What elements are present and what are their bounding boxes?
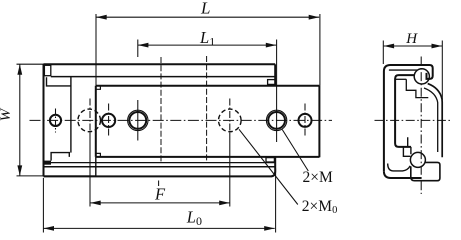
side view outer member outer contour (web + top arm) <box>384 65 433 171</box>
small hole left <box>102 114 115 127</box>
svg-text:2×M: 2×M <box>303 169 333 186</box>
leader 2xM <box>282 130 308 171</box>
side view ball top <box>414 69 429 84</box>
dimension L right extension <box>319 14 321 86</box>
dimension L1 right extension <box>276 40 278 143</box>
side view inner member right web arc <box>428 84 443 158</box>
leader 2xM0 <box>239 129 298 204</box>
centerline horizontal main axis <box>30 119 333 121</box>
svg-text:H: H <box>405 31 418 47</box>
bottom-left lip filled <box>44 161 51 165</box>
outer rail right end upper segment <box>274 64 276 86</box>
dimension L0 left extension <box>42 178 44 233</box>
counterbore hole left outer <box>128 110 148 130</box>
hole M0 left centerline extension <box>89 99 91 134</box>
outer rail top flange inner line <box>51 76 275 78</box>
small hole right centerline <box>304 104 306 138</box>
hidden middle rail end right dashed <box>206 56 208 163</box>
inner rail top-left notch <box>96 86 101 89</box>
outer rail right end lower segment <box>274 157 276 172</box>
side view vertical centerline <box>420 57 422 195</box>
right-end top notch <box>268 80 276 85</box>
inner rail bottom-left notch <box>96 153 101 156</box>
side view outer bottom corner <box>384 171 421 178</box>
retainer left vertical <box>70 77 72 153</box>
dimension H line <box>384 45 442 47</box>
dimension L1 left extension <box>137 40 139 58</box>
side view inner member left wall and top hook <box>395 75 414 147</box>
outer rail bottom edge <box>44 171 276 176</box>
bottom-left step <box>51 153 69 161</box>
svg-text:L: L <box>200 0 210 18</box>
counterbore hole right outer <box>266 110 286 130</box>
dimension L0 right extension <box>275 169 277 233</box>
small hole right <box>299 114 312 127</box>
svg-text:W: W <box>0 107 14 121</box>
dimension L0 line <box>44 227 275 229</box>
cap hole centerline <box>55 109 57 133</box>
hidden middle rail end left dashed <box>160 57 162 163</box>
side view: H extension left <box>382 41 384 65</box>
inner rail bottom edge <box>96 156 320 158</box>
side view staircase under top ball <box>406 79 428 97</box>
inner rail right edge <box>318 86 320 158</box>
svg-text:F: F <box>154 184 166 203</box>
side view inner member web inner line <box>424 88 438 152</box>
dimension W bottom extension <box>17 175 97 177</box>
outer rail bottom line 2 <box>44 166 276 168</box>
counterbore hole left inner <box>129 112 146 129</box>
hole M0 left dashed circle <box>78 109 101 132</box>
svg-text:2×M0: 2×M0 <box>302 198 338 216</box>
dimension L line <box>96 16 319 18</box>
dimension W line <box>19 64 21 176</box>
svg-text:L1: L1 <box>199 28 215 49</box>
counterbore hole right inner <box>268 112 285 129</box>
side view ball bottom <box>410 152 425 167</box>
dimension F line <box>90 202 230 204</box>
side view bottom hook step <box>403 137 411 156</box>
cap hole <box>50 115 61 126</box>
inner rail top edge <box>96 85 320 87</box>
small hole left centerline <box>108 104 110 138</box>
side view inner member foot <box>411 162 440 180</box>
hole M0 right centerline extension <box>229 99 231 134</box>
hole M0 right dashed circle <box>219 109 242 132</box>
inner rail left edge <box>95 86 97 157</box>
side view horizontal centerline <box>375 119 452 121</box>
outer rail left end <box>43 64 45 176</box>
outer rail bottom line 1 <box>44 162 276 164</box>
stray centerline dash above F <box>158 181 160 187</box>
counterbore left centerline <box>137 100 139 141</box>
dimension L1 line <box>138 44 276 46</box>
side view: H extension right <box>441 41 443 101</box>
side view inner hook second line <box>396 78 406 80</box>
svg-text:L0: L0 <box>186 208 202 229</box>
top-left step <box>47 77 72 86</box>
dimension L left extension <box>95 14 97 86</box>
top-left lip box <box>44 65 50 75</box>
side view outer bottom arm inner line <box>388 164 411 171</box>
dimension W top extension <box>17 63 44 65</box>
right-end bottom notch <box>266 158 274 162</box>
side view outer top arm inner line <box>389 69 417 71</box>
inner rail left hook lower vertical <box>95 157 97 177</box>
outer rail top edge <box>44 63 276 65</box>
